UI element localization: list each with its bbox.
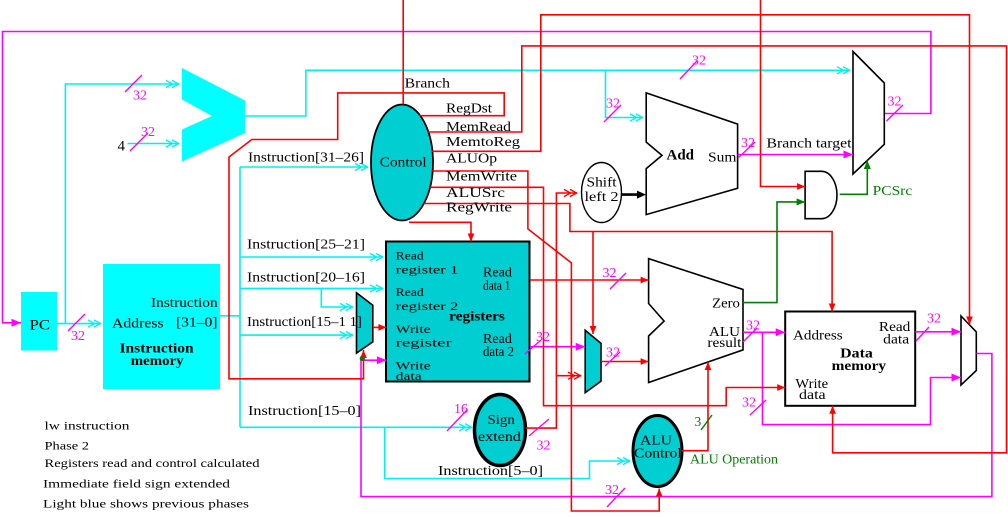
wire: sign extend out riser to shift left 2 and ALUSrc mux input 1 bbox=[526, 189, 581, 428]
wire: Instruction[20-16] branch to RegDst mux input 0 bbox=[321, 288, 353, 310]
svg-text:Branch target: Branch target bbox=[767, 136, 852, 151]
svg-text:32: 32 bbox=[603, 266, 617, 281]
svg-text:RegDst: RegDst bbox=[446, 101, 492, 116]
svg-text:Add: Add bbox=[667, 148, 695, 164]
wire: Zero flag to AND gate input 2 bbox=[743, 202, 805, 303]
svg-text:Control: Control bbox=[380, 156, 427, 171]
wire: ALUSrc control to ALUSrc mux select and data memory top bbox=[424, 204, 832, 335]
svg-text:MemWrite: MemWrite bbox=[446, 169, 517, 184]
svg-text:Light blue shows previous phas: Light blue shows previous phases bbox=[43, 496, 249, 510]
svg-text:left 2: left 2 bbox=[585, 189, 619, 204]
svg-text:Read: Read bbox=[396, 285, 424, 299]
svg-text:Phase 2: Phase 2 bbox=[45, 439, 90, 453]
svg-text:MemRead: MemRead bbox=[446, 119, 511, 134]
svg-text:[31–0]: [31–0] bbox=[176, 314, 218, 329]
svg-text:Branch: Branch bbox=[405, 75, 451, 90]
svg-text:Read: Read bbox=[396, 249, 424, 263]
AND gate bbox=[805, 171, 837, 218]
svg-text:data: data bbox=[883, 331, 909, 346]
wire: MemRead control around right edge to data memory bottom bbox=[428, 46, 1007, 453]
svg-text:MemtoReg: MemtoReg bbox=[446, 134, 520, 149]
svg-text:data 1: data 1 bbox=[483, 278, 511, 293]
wire: Instruction[15-11] to RegDst mux input 1 bbox=[240, 332, 353, 339]
svg-text:lw instruction: lw instruction bbox=[45, 419, 130, 433]
wire: Sum to branch mux input 1 (Branch target) bbox=[738, 136, 853, 155]
svg-text:Instruction[20–16]: Instruction[20–16] bbox=[247, 270, 365, 285]
svg-text:16: 16 bbox=[454, 402, 468, 417]
svg-text:extend: extend bbox=[478, 429, 521, 444]
svg-text:Instruction[25–21]: Instruction[25–21] bbox=[247, 237, 365, 252]
wire: Instruction[15-0] to sign extend bbox=[240, 403, 472, 431]
ALU control unit bbox=[633, 416, 682, 487]
PC register bbox=[21, 292, 57, 351]
svg-text:PCSrc: PCSrc bbox=[873, 183, 913, 198]
control signal labels bbox=[446, 101, 520, 215]
wire: ALU result branch down to result mux input 1 bbox=[763, 332, 962, 424]
svg-text:4: 4 bbox=[118, 139, 126, 155]
wire: data memory read data to result mux input 0 bbox=[915, 331, 961, 333]
svg-text:Address: Address bbox=[793, 328, 843, 343]
svg-text:ALUSrc: ALUSrc bbox=[446, 185, 505, 200]
junction dot green bbox=[360, 357, 365, 361]
svg-text:32: 32 bbox=[133, 89, 147, 104]
wire: ALU operation from ALU control up into ALU bbox=[682, 362, 709, 451]
wire: MemtoReg control along top to result mux select bbox=[432, 15, 970, 325]
svg-text:3: 3 bbox=[695, 414, 702, 429]
svg-text:Registers read and control cal: Registers read and control calculated bbox=[45, 456, 260, 470]
svg-text:32: 32 bbox=[537, 439, 551, 454]
wire: PC out to instruction memory address bbox=[57, 320, 101, 327]
registers file bbox=[386, 242, 530, 384]
wire: PC+4 adder output to branch mux input 0 bbox=[245, 67, 850, 116]
main ALU bbox=[649, 259, 743, 383]
svg-text:ALU Operation: ALU Operation bbox=[690, 452, 778, 467]
wire: PCSrc from AND gate to branch mux select bbox=[840, 161, 868, 195]
svg-text:memory: memory bbox=[131, 353, 184, 368]
svg-text:data: data bbox=[396, 369, 423, 383]
svg-text:Address: Address bbox=[112, 316, 164, 331]
wire: PC write-back magenta loop along top border into PC bbox=[3, 32, 931, 323]
constant 4 wire into adder input 2 bbox=[118, 139, 180, 155]
svg-text:Sum: Sum bbox=[708, 151, 737, 166]
wire: ALUOp control down to ALU control bbox=[432, 171, 659, 511]
wire: Branch control from top edge into AND gate input 1 bbox=[761, 0, 806, 187]
black arrow shift left 2 to Add bbox=[622, 191, 647, 199]
branch mux (PCSrc) bbox=[853, 52, 884, 175]
caption text block bbox=[43, 419, 260, 511]
wire: ALUSrc mux out to ALU input 2 bbox=[601, 361, 649, 363]
label Branch bbox=[405, 75, 451, 90]
bus width 32 labels with slashes bbox=[68, 314, 85, 344]
sign extend unit bbox=[475, 395, 526, 466]
wire: Instruction[20-16] to Read register 2 bbox=[240, 270, 383, 293]
wire: RegDst mux out to write register bbox=[373, 326, 387, 328]
svg-text:result: result bbox=[707, 335, 741, 350]
svg-text:Instruction[15–0]: Instruction[15–0] bbox=[248, 403, 361, 418]
data memory bbox=[785, 312, 915, 406]
wire: read data 1 to ALU input 1 bbox=[530, 279, 649, 281]
wire: RegWrite control into registers top bbox=[409, 222, 471, 241]
svg-text:Zero: Zero bbox=[712, 296, 740, 311]
svg-text:32: 32 bbox=[606, 97, 620, 112]
wire: result mux out write-back to registers write data bbox=[361, 354, 992, 497]
svg-text:register 1: register 1 bbox=[396, 263, 459, 277]
svg-text:Instruction[31–26]: Instruction[31–26] bbox=[248, 150, 364, 165]
svg-text:Instruction: Instruction bbox=[151, 295, 218, 310]
svg-text:32: 32 bbox=[888, 95, 902, 110]
adder PC+4 bbox=[182, 68, 245, 162]
wire: Instruction[5-0] to ALU control bbox=[385, 427, 630, 478]
wire: Instruction[25-21] to Read register 1 bbox=[240, 237, 383, 261]
wire: RegDst control loop down to RegDst mux bbox=[229, 93, 504, 379]
wire: PC+4 tap down to Add input 1 bbox=[606, 70, 644, 121]
svg-text:memory: memory bbox=[832, 358, 887, 373]
svg-text:Shift: Shift bbox=[587, 175, 617, 190]
svg-text:data: data bbox=[799, 387, 826, 402]
ALUSrc mux bbox=[585, 330, 601, 392]
svg-text:RegWrite: RegWrite bbox=[446, 199, 512, 214]
svg-text:registers: registers bbox=[449, 309, 505, 324]
wire: instruction bus from memory with riser bbox=[220, 167, 240, 427]
svg-text:register: register bbox=[396, 336, 452, 350]
svg-text:Instruction[15–1 1]: Instruction[15–1 1] bbox=[247, 314, 362, 329]
instruction memory bbox=[103, 264, 220, 389]
svg-text:PC: PC bbox=[30, 318, 51, 334]
svg-text:Sign: Sign bbox=[488, 412, 516, 427]
svg-text:Instruction[5–0]: Instruction[5–0] bbox=[438, 463, 543, 478]
svg-text:Write: Write bbox=[396, 322, 431, 336]
svg-text:data 2: data 2 bbox=[483, 344, 514, 359]
svg-text:Control: Control bbox=[634, 446, 682, 461]
svg-text:32: 32 bbox=[927, 312, 941, 327]
wire: MemWrite control down to data memory write data bbox=[430, 187, 786, 405]
wire: PC out riser to adder input 1 bbox=[65, 80, 179, 323]
RegDst mux bbox=[357, 293, 373, 353]
svg-text:ALUOp: ALUOp bbox=[446, 150, 497, 165]
branch adder bbox=[646, 93, 737, 215]
label Instruction[15-11] over mux bbox=[247, 314, 362, 329]
svg-text:32: 32 bbox=[692, 54, 706, 69]
shift left 2 unit bbox=[582, 163, 622, 223]
svg-text:32: 32 bbox=[71, 329, 85, 344]
wire: read data 2 to ALUSrc mux input 0 bbox=[530, 346, 586, 348]
control unit bbox=[371, 105, 433, 221]
wire: ALU result to data memory address bbox=[743, 331, 785, 333]
svg-text:Immediate field sign extended: Immediate field sign extended bbox=[43, 476, 230, 490]
green labels bbox=[690, 183, 912, 467]
result mux (MemtoReg) bbox=[961, 316, 976, 385]
wire: Branch control up to top edge bbox=[402, 0, 404, 105]
svg-text:32: 32 bbox=[742, 396, 756, 411]
wire: Instruction[31-26] to Control bbox=[240, 150, 368, 171]
